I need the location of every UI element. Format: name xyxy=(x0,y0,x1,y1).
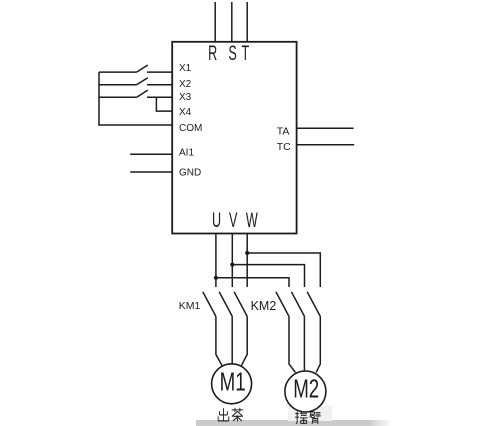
label cha (茶) of 出茶 under M1 xyxy=(232,408,243,422)
wire X2 left segment xyxy=(99,84,137,86)
wire V branch to KM2 xyxy=(232,265,304,287)
wire GND xyxy=(130,171,172,173)
svg-text:TA: TA xyxy=(277,126,290,138)
svg-text:KM2: KM2 xyxy=(251,299,277,313)
contactor KM2 pole 1 blade xyxy=(276,292,289,317)
svg-text:TC: TC xyxy=(277,141,291,153)
svg-text:M1: M1 xyxy=(220,366,246,396)
wire W branch to KM2 xyxy=(247,253,320,287)
wire KM2 pole 1 to M2 xyxy=(289,316,295,372)
wire X1 right segment xyxy=(147,71,172,73)
junction W node xyxy=(245,251,249,255)
svg-text:GND: GND xyxy=(179,167,201,178)
wire KM1 pole 2 to M1 xyxy=(231,316,233,364)
label chu (出) of 出茶 under M1 xyxy=(218,408,229,421)
wire TA relay output xyxy=(297,127,354,129)
wire U branch to KM2 xyxy=(216,278,289,287)
wire X3 left segment xyxy=(99,96,137,98)
svg-text:X1: X1 xyxy=(179,63,192,74)
wire S phase input xyxy=(231,2,233,42)
label bi (臂) of 摇臂 under M2 xyxy=(310,412,321,424)
svg-text:M2: M2 xyxy=(293,373,319,403)
wire X2 right segment xyxy=(147,84,172,86)
watermark grey band bottom xyxy=(196,406,392,426)
wire AI1 xyxy=(130,153,172,155)
wire T phase input xyxy=(246,2,248,42)
svg-text:U: U xyxy=(212,208,221,232)
svg-text:R: R xyxy=(208,41,217,65)
wire X3 right segment xyxy=(147,96,172,98)
contactor KM1 pole 2 blade xyxy=(219,292,232,317)
svg-text:KM1: KM1 xyxy=(179,300,201,312)
wire V phase output xyxy=(231,234,233,288)
inverter U1 box xyxy=(172,42,296,234)
wire U phase output xyxy=(215,234,217,288)
junction V node xyxy=(230,263,234,267)
wire KM1 pole 3 to M1 xyxy=(241,316,247,365)
wire KM2 pole 3 to M2 xyxy=(316,316,320,372)
wire KM2 pole 2 to M2 xyxy=(303,316,305,371)
svg-text:COM: COM xyxy=(179,123,202,134)
junction U node xyxy=(214,276,218,280)
wire common bus to COM xyxy=(99,72,172,125)
contactor KM1 pole 3 blade xyxy=(234,292,247,317)
contactor KM1 pole 1 blade xyxy=(203,292,216,317)
wire R phase input xyxy=(214,2,216,42)
motor M2 circle xyxy=(285,371,326,412)
label yao (摇) of 摇臂 under M2 xyxy=(295,412,307,424)
svg-text:V: V xyxy=(229,208,238,232)
svg-text:AI1: AI1 xyxy=(179,148,194,159)
svg-text:X4: X4 xyxy=(179,107,192,118)
contactor KM2 pole 3 blade xyxy=(307,292,320,317)
svg-text:W: W xyxy=(246,208,258,232)
switch blade to X1 xyxy=(137,65,148,72)
svg-text:X3: X3 xyxy=(179,92,192,103)
switch blade to X3 xyxy=(137,90,148,97)
contactor KM2 pole 2 blade xyxy=(291,292,304,317)
svg-text:T: T xyxy=(242,41,250,65)
wire KM1 pole 1 to M1 xyxy=(216,316,222,365)
switch blade to X2 xyxy=(137,78,148,85)
wire W phase output xyxy=(246,234,248,288)
motor M1 circle xyxy=(212,364,252,404)
wire X1 left segment xyxy=(99,71,137,73)
wire X3 to X4 jumper xyxy=(156,97,172,111)
svg-text:X2: X2 xyxy=(179,79,192,90)
svg-text:S: S xyxy=(228,41,236,65)
wire TC relay output xyxy=(297,144,355,146)
